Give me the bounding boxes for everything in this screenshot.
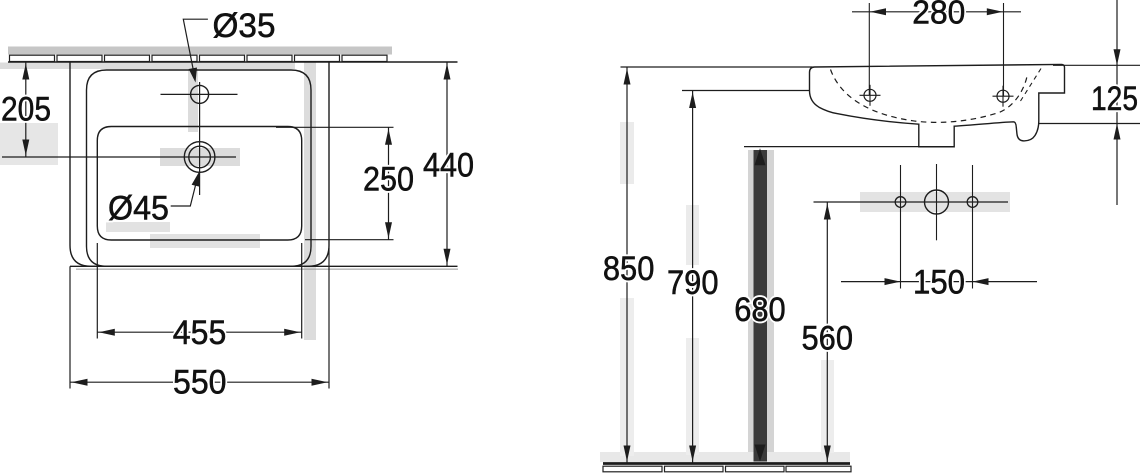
svg-text:680: 680 — [734, 291, 786, 329]
svg-text:455: 455 — [173, 314, 227, 352]
svg-text:850: 850 — [603, 250, 655, 288]
svg-text:440: 440 — [423, 147, 474, 185]
svg-text:205: 205 — [1, 91, 51, 129]
svg-text:125: 125 — [1091, 80, 1138, 118]
svg-text:550: 550 — [173, 364, 227, 402]
svg-text:250: 250 — [363, 161, 414, 199]
svg-text:280: 280 — [912, 0, 965, 31]
svg-text:790: 790 — [667, 264, 719, 302]
svg-text:Ø45: Ø45 — [108, 190, 169, 228]
svg-text:150: 150 — [913, 264, 965, 302]
svg-text:Ø35: Ø35 — [213, 7, 276, 45]
svg-text:560: 560 — [802, 320, 854, 358]
